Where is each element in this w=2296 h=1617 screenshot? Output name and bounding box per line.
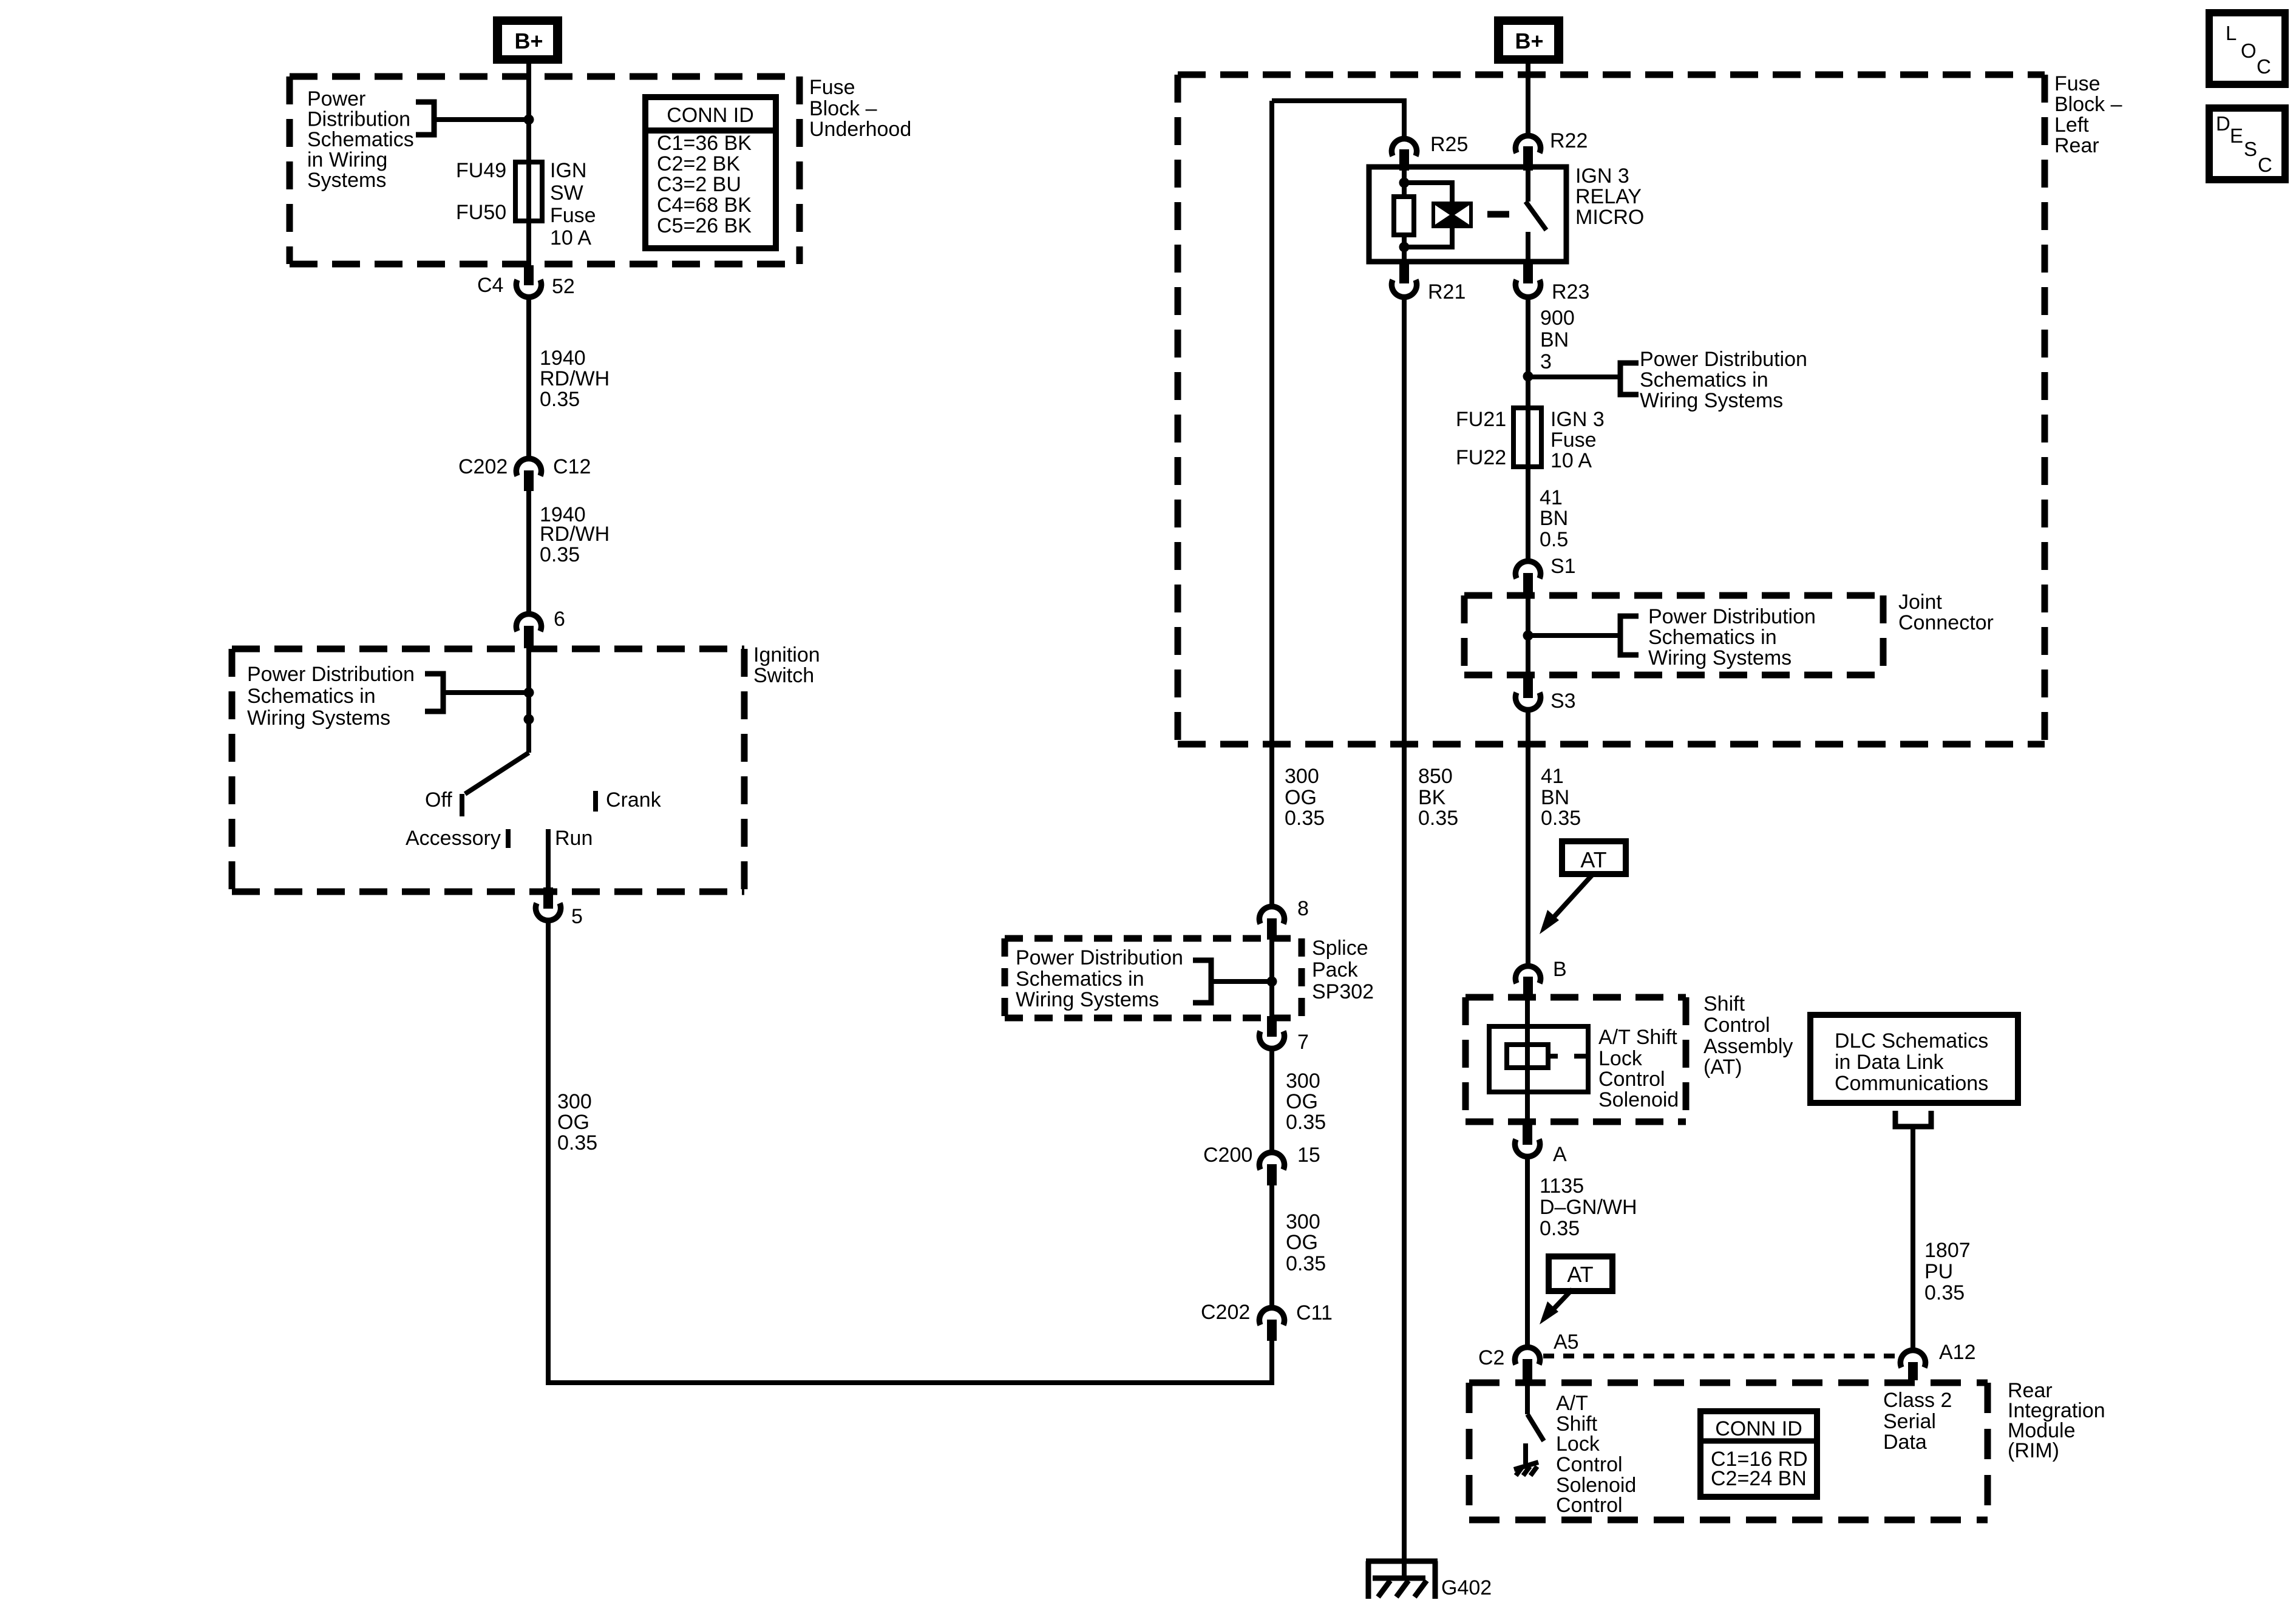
svg-text:IGN 3: IGN 3	[1575, 164, 1629, 188]
connector C202-C11 male stub	[1267, 1320, 1277, 1341]
svg-text:R21: R21	[1428, 280, 1466, 303]
svg-text:B: B	[1553, 958, 1567, 981]
LOC reference box	[2209, 13, 2285, 84]
svg-text:S: S	[2244, 138, 2257, 160]
svg-text:OG: OG	[1286, 1090, 1318, 1113]
svg-text:E: E	[2230, 124, 2243, 147]
svg-text:O: O	[2241, 39, 2257, 62]
ignition switch blade (to Off)	[465, 753, 529, 794]
relay pin R21 stub	[1399, 262, 1409, 283]
svg-text:10 A: 10 A	[550, 226, 591, 249]
svg-text:Power: Power	[307, 87, 365, 110]
svg-text:BN: BN	[1540, 328, 1569, 351]
svg-text:A/T: A/T	[1556, 1392, 1588, 1415]
svg-text:1940: 1940	[540, 347, 586, 370]
svg-text:Power Distribution: Power Distribution	[1016, 946, 1183, 969]
svg-text:C200: C200	[1203, 1144, 1252, 1167]
svg-text:Fuse: Fuse	[1550, 429, 1597, 452]
relay switch blade	[1526, 202, 1546, 230]
svg-text:IGN: IGN	[550, 159, 586, 182]
svg-text:OG: OG	[557, 1111, 589, 1134]
svg-text:5: 5	[571, 905, 583, 928]
svg-text:Underhood: Underhood	[809, 118, 911, 141]
relay switch fixed contact (top)	[1526, 167, 1530, 202]
svg-text:Off: Off	[425, 788, 452, 812]
ignition switch pin 6 stub	[524, 626, 534, 648]
svg-text:A/T Shift: A/T Shift	[1598, 1026, 1677, 1049]
relay switch contact (bottom)	[1526, 232, 1530, 262]
svg-text:Data: Data	[1883, 1431, 1927, 1454]
svg-text:RELAY: RELAY	[1575, 185, 1642, 208]
RIM pin A12 stub	[1908, 1362, 1918, 1380]
wire joint connector junction to bracket	[1528, 633, 1618, 638]
bracket power distribution schematics (ignition switch)	[425, 674, 443, 711]
relay pin R25 stub	[1399, 149, 1409, 171]
svg-text:R25: R25	[1430, 133, 1468, 156]
relay pin R23 stub	[1523, 262, 1533, 283]
svg-text:FU50: FU50	[456, 201, 506, 224]
svg-text:C2: C2	[1478, 1346, 1504, 1369]
ignition switch Accessory contact tick	[506, 829, 511, 848]
svg-text:A: A	[1553, 1143, 1567, 1166]
svg-text:Ignition: Ignition	[753, 643, 820, 666]
svg-text:Schematics in: Schematics in	[1640, 368, 1768, 392]
svg-text:RD/WH: RD/WH	[540, 523, 610, 546]
wire to relay coil top	[1404, 183, 1452, 202]
svg-text:(RIM): (RIM)	[2008, 1439, 2059, 1462]
connector C200-15 male stub	[1267, 1164, 1277, 1185]
connector C202 pin C12 arc	[516, 458, 541, 476]
svg-text:SW: SW	[550, 181, 583, 205]
splice pack SP302 dashed box	[1005, 938, 1302, 1018]
wire C200-15 to C202-C11	[1269, 1185, 1274, 1305]
wire pin A to RIM pin A5	[1525, 1159, 1530, 1346]
svg-text:G402: G402	[1441, 1576, 1492, 1599]
wire relay R25 branch down to splice pin 8	[1269, 101, 1274, 904]
connector C4 pin 52 arc	[516, 280, 541, 297]
svg-text:Power Distribution: Power Distribution	[247, 663, 415, 686]
ground G402 symbol	[1366, 1561, 1438, 1599]
svg-text:Run: Run	[555, 827, 593, 850]
joint connector dashed box	[1464, 595, 1883, 675]
svg-text:Wiring Systems: Wiring Systems	[1640, 389, 1783, 412]
DLC pigtail bracket	[1895, 1111, 1931, 1127]
svg-text:AT: AT	[1567, 1262, 1593, 1287]
svg-text:C202: C202	[458, 455, 508, 478]
splice pin 7 stub	[1267, 1016, 1277, 1037]
connector C200 pin 15 arc	[1259, 1152, 1284, 1170]
svg-text:Block –: Block –	[2054, 93, 2122, 116]
svg-text:300: 300	[1286, 1070, 1320, 1093]
svg-text:Switch: Switch	[753, 664, 814, 687]
svg-text:850: 850	[1418, 765, 1453, 788]
bracket power distribution schematics (fuse block)	[416, 102, 434, 135]
svg-text:Accessory: Accessory	[406, 827, 501, 850]
svg-text:A5: A5	[1554, 1331, 1579, 1354]
solenoid plunger link	[1548, 1054, 1558, 1059]
svg-text:C4=68 BK: C4=68 BK	[657, 194, 752, 217]
wire relay pin R25 jog to splice branch	[1272, 101, 1404, 136]
wire S3 to shift control pin B	[1526, 712, 1530, 963]
shift control pin A stub	[1523, 1125, 1532, 1145]
svg-text:Left: Left	[2054, 114, 2089, 137]
RIM driver switch blade	[1527, 1414, 1544, 1441]
svg-text:52: 52	[552, 275, 575, 298]
fuse block - left rear dashed box	[1178, 75, 2045, 744]
svg-text:C5=26 BK: C5=26 BK	[657, 214, 752, 237]
relay coil branch wire (top)	[1402, 167, 1407, 197]
svg-text:300: 300	[1286, 1210, 1320, 1233]
solenoid coil inner box	[1507, 1045, 1548, 1068]
svg-text:Splice: Splice	[1312, 937, 1368, 960]
wire splice pin 7 to C200-15	[1269, 1050, 1274, 1150]
svg-text:Joint: Joint	[1898, 591, 1942, 614]
svg-text:Pack: Pack	[1312, 958, 1359, 981]
RIM connector C2 pin A5 arc	[1515, 1347, 1540, 1364]
svg-text:Solenoid: Solenoid	[1598, 1088, 1679, 1111]
svg-text:0.35: 0.35	[1285, 807, 1325, 830]
svg-text:BK: BK	[1418, 786, 1446, 809]
wire bracket to ignition feed junction	[443, 690, 529, 695]
splice pin 8 arc	[1259, 906, 1284, 924]
joint connector pin S1 arc	[1515, 561, 1540, 578]
AT designation box (upper)	[1562, 841, 1626, 874]
svg-text:Control: Control	[1556, 1453, 1623, 1476]
svg-text:Rear: Rear	[2054, 134, 2099, 157]
svg-text:C3=2 BU: C3=2 BU	[657, 173, 741, 196]
svg-text:A12: A12	[1939, 1341, 1976, 1364]
svg-text:Crank: Crank	[606, 788, 662, 812]
power symbol B+ (right)	[1494, 16, 1563, 64]
svg-text:CONN ID: CONN ID	[1715, 1417, 1802, 1440]
svg-text:S1: S1	[1550, 555, 1576, 578]
svg-text:300: 300	[1285, 765, 1319, 788]
svg-text:FU49: FU49	[456, 159, 506, 182]
power symbol B+ (left)	[493, 16, 562, 64]
wire RIM pin A5 to driver switch	[1525, 1380, 1530, 1414]
svg-text:R22: R22	[1550, 129, 1588, 152]
svg-text:in Wiring: in Wiring	[307, 149, 387, 172]
svg-text:Distribution: Distribution	[307, 108, 410, 131]
junction dot ignition feed	[524, 688, 534, 698]
fuse FU49/FU50 IGN SW Fuse 10A	[515, 162, 542, 221]
svg-text:R23: R23	[1552, 280, 1589, 303]
wire B+ to relay pin R22	[1526, 64, 1530, 133]
fuse FU21/FU22 IGN 3 Fuse 10A	[1513, 408, 1541, 467]
ignition switch Run contact wire	[546, 829, 551, 887]
svg-text:0.35: 0.35	[540, 543, 580, 566]
svg-text:8: 8	[1297, 897, 1309, 920]
svg-text:Schematics: Schematics	[307, 128, 414, 151]
joint connector pin S3 arc	[1515, 693, 1540, 710]
wire junction to power distribution bracket	[436, 117, 529, 122]
svg-text:Lock: Lock	[1556, 1432, 1600, 1456]
ignition switch pin 5 stub	[543, 887, 553, 909]
svg-text:Control: Control	[1703, 1014, 1770, 1037]
svg-text:0.35: 0.35	[540, 388, 580, 411]
splice pin 8 stub	[1267, 918, 1277, 940]
svg-text:Systems: Systems	[307, 169, 386, 192]
svg-text:0.35: 0.35	[1541, 807, 1581, 830]
junction dot 900 BN feed	[1523, 371, 1533, 382]
RIM connector C2 pin A5 stub	[1523, 1359, 1532, 1380]
svg-text:1807: 1807	[1924, 1239, 1971, 1262]
svg-text:FU21: FU21	[1456, 408, 1506, 431]
internal chassis ground (RIM driver)	[1514, 1443, 1538, 1476]
svg-text:Control: Control	[1556, 1494, 1623, 1517]
shift control pin A arc	[1515, 1139, 1540, 1157]
svg-text:Schematics in: Schematics in	[1648, 626, 1777, 649]
fuse block - underhood dashed box	[290, 76, 800, 264]
bracket power distribution schematics (left rear)	[1620, 363, 1639, 395]
svg-text:S3: S3	[1550, 690, 1576, 713]
wire Run pin 5 to connector C202 C11	[548, 922, 1272, 1383]
relay pin R23 arc	[1515, 280, 1540, 297]
svg-text:D: D	[2216, 112, 2230, 135]
relay pin R21 arc	[1391, 280, 1416, 297]
svg-text:7: 7	[1297, 1031, 1309, 1054]
svg-text:Serial: Serial	[1883, 1410, 1936, 1433]
svg-text:10 A: 10 A	[1550, 449, 1592, 472]
connector C202 pin C11 arc	[1259, 1307, 1284, 1325]
wire relay R21 to ground G402	[1402, 299, 1407, 1578]
svg-text:C4: C4	[477, 274, 503, 297]
svg-text:0.35: 0.35	[1286, 1252, 1326, 1275]
svg-text:Wiring Systems: Wiring Systems	[247, 707, 390, 730]
svg-text:(AT): (AT)	[1703, 1056, 1742, 1079]
junction dot switch pivot	[524, 714, 534, 725]
shift control pin B arc	[1515, 966, 1540, 983]
wire through joint connector	[1526, 594, 1530, 677]
relay IGN 3 RELAY MICRO box	[1369, 167, 1566, 262]
svg-text:Wiring Systems: Wiring Systems	[1016, 988, 1159, 1011]
junction dot splice SP302	[1267, 977, 1277, 987]
rear integration module dashed box	[1469, 1383, 1988, 1520]
svg-text:Shift: Shift	[1703, 992, 1745, 1015]
svg-text:1135: 1135	[1540, 1175, 1584, 1198]
ignition switch pin 6 arc	[516, 614, 541, 631]
svg-text:B+: B+	[1515, 29, 1543, 53]
svg-text:3: 3	[1540, 350, 1552, 373]
ignition switch Off contact tick	[460, 794, 464, 816]
svg-text:FU22: FU22	[1456, 446, 1506, 469]
wire junction to power distribution bracket (left rear)	[1528, 375, 1618, 379]
splice pin 7 arc	[1259, 1031, 1284, 1049]
AT arrow (lower)	[1549, 1289, 1572, 1314]
wire through shift lock solenoid	[1525, 998, 1530, 1125]
svg-text:C: C	[2258, 154, 2272, 176]
svg-text:OG: OG	[1286, 1231, 1318, 1254]
joint connector pin S1 stub	[1523, 573, 1533, 594]
svg-text:Wiring Systems: Wiring Systems	[1648, 646, 1792, 670]
connector C4 male stub	[524, 265, 534, 285]
wire relay R23 through fuse FU21/FU22 to S1	[1526, 299, 1530, 559]
wire pin 6 into switch	[526, 648, 531, 753]
svg-text:Control: Control	[1598, 1068, 1665, 1091]
AT arrow (upper)	[1550, 874, 1593, 921]
wire bracket to splice junction	[1211, 979, 1272, 984]
svg-text:BN: BN	[1541, 786, 1569, 809]
svg-text:BN: BN	[1540, 507, 1568, 530]
relay junction dot (bottom)	[1399, 242, 1410, 253]
relay junction dot (top)	[1399, 178, 1410, 188]
svg-text:L: L	[2226, 22, 2237, 44]
svg-text:41: 41	[1540, 486, 1563, 509]
svg-text:C12: C12	[553, 455, 591, 478]
shift control assembly dashed box	[1466, 997, 1686, 1122]
svg-text:0.35: 0.35	[557, 1131, 597, 1154]
svg-text:15: 15	[1297, 1144, 1320, 1167]
wire through splice pack	[1269, 940, 1274, 1016]
svg-text:C2=2 BK: C2=2 BK	[657, 152, 740, 175]
svg-text:SP302: SP302	[1312, 980, 1374, 1003]
RIM pin A12 arc	[1900, 1350, 1925, 1368]
relay mechanical link dash	[1487, 211, 1509, 218]
svg-text:Assembly: Assembly	[1703, 1035, 1793, 1058]
ignition switch Crank contact tick	[593, 791, 598, 812]
svg-text:Power Distribution: Power Distribution	[1640, 348, 1807, 371]
relay coil branch wire (bottom)	[1402, 235, 1407, 262]
shift control pin B stub	[1523, 977, 1533, 998]
svg-text:IGN 3: IGN 3	[1550, 408, 1605, 431]
svg-text:C202: C202	[1201, 1301, 1250, 1324]
wire C4-52 to C202-C12	[526, 299, 531, 456]
svg-text:OG: OG	[1285, 786, 1317, 809]
svg-text:Communications: Communications	[1835, 1072, 1988, 1095]
wire B+ through fuse FU49/FU50 to connector C4	[526, 64, 531, 265]
svg-text:900: 900	[1540, 307, 1575, 330]
svg-text:C11: C11	[1296, 1301, 1333, 1324]
relay pin R22 stub	[1523, 146, 1533, 171]
svg-text:PU: PU	[1924, 1260, 1953, 1283]
relay coil winding symbol	[1432, 202, 1473, 228]
DESC reference box	[2209, 108, 2285, 180]
svg-text:C2=24 BN: C2=24 BN	[1711, 1467, 1807, 1490]
ignition switch dashed box	[232, 649, 744, 892]
svg-text:Connector: Connector	[1898, 611, 1994, 634]
relay pin R22 arc	[1515, 135, 1540, 153]
bracket power distribution schematics (splice pack)	[1193, 960, 1211, 1003]
CONN ID table (fuse block underhood)	[645, 97, 776, 248]
wire class 2 serial data (dashed)	[1543, 1354, 1900, 1358]
bracket power distribution schematics (joint connector)	[1620, 616, 1639, 655]
svg-text:Class 2: Class 2	[1883, 1389, 1952, 1412]
svg-text:0.35: 0.35	[1286, 1111, 1326, 1134]
wire DLC to RIM pin A12	[1911, 1127, 1915, 1348]
svg-text:MICRO: MICRO	[1575, 206, 1644, 229]
ignition switch pin 5 arc	[535, 903, 560, 921]
svg-text:Fuse: Fuse	[550, 204, 596, 227]
DLC schematics reference box	[1810, 1015, 2018, 1103]
svg-text:0.35: 0.35	[1924, 1281, 1965, 1304]
svg-text:300: 300	[557, 1090, 592, 1113]
svg-text:0.35: 0.35	[1418, 807, 1458, 830]
svg-text:Schematics in: Schematics in	[1016, 968, 1144, 991]
svg-text:DLC Schematics: DLC Schematics	[1835, 1029, 1988, 1053]
svg-text:C: C	[2257, 55, 2271, 78]
CONN ID table (RIM)	[1700, 1411, 1817, 1497]
svg-text:Lock: Lock	[1598, 1047, 1643, 1070]
joint connector pin S3 stub	[1523, 677, 1533, 698]
svg-text:RD/WH: RD/WH	[540, 367, 610, 390]
svg-text:0.5: 0.5	[1540, 528, 1568, 551]
svg-text:D–GN/WH: D–GN/WH	[1540, 1196, 1637, 1219]
svg-text:Fuse: Fuse	[809, 76, 855, 99]
wire C202-C12 to ignition switch pin 6	[526, 491, 531, 612]
svg-text:6: 6	[554, 608, 565, 631]
svg-text:AT: AT	[1580, 847, 1606, 872]
svg-text:41: 41	[1541, 765, 1564, 788]
connector C202-C12 male stub	[524, 470, 534, 491]
svg-text:Block –: Block –	[809, 97, 877, 120]
svg-text:in Data Link: in Data Link	[1835, 1051, 1944, 1074]
junction dot at B+ feed	[524, 115, 534, 125]
svg-text:CONN ID: CONN ID	[667, 104, 754, 127]
junction dot joint connector	[1523, 631, 1533, 641]
AT designation box (lower)	[1549, 1256, 1612, 1291]
A/T shift lock control solenoid outer box	[1489, 1026, 1588, 1092]
svg-text:0.35: 0.35	[1540, 1217, 1580, 1240]
wire from relay coil bottom	[1404, 228, 1452, 247]
svg-text:Schematics in: Schematics in	[247, 685, 376, 708]
svg-text:Power Distribution: Power Distribution	[1648, 605, 1816, 628]
relay resistor	[1394, 197, 1414, 235]
relay pin R25 arc	[1391, 138, 1416, 156]
svg-text:C1=36 BK: C1=36 BK	[657, 132, 752, 155]
svg-text:B+: B+	[514, 29, 543, 53]
svg-text:Fuse: Fuse	[2054, 72, 2101, 95]
